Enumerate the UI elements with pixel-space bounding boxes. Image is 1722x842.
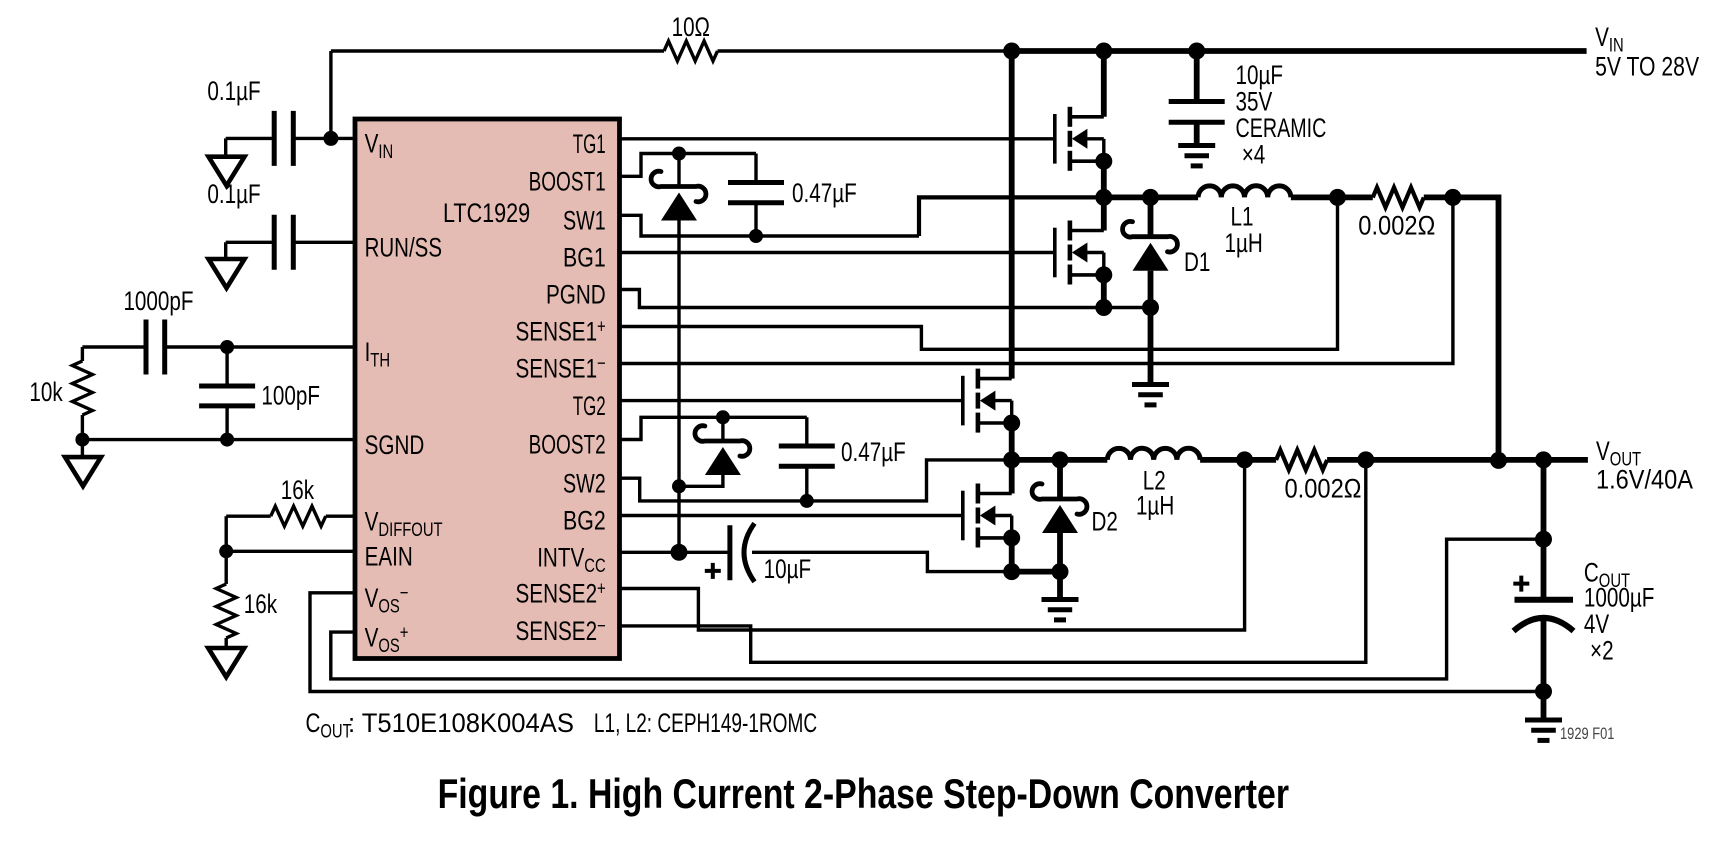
value label 0.47uF (boost 1) [792, 178, 857, 208]
wire EAIN pin [226, 550, 355, 553]
node SW2 / Q3 Q4 junction [1003, 451, 1020, 468]
wire Q1 source to SW1 node [1101, 161, 1107, 197]
resistor 10k (ITH) [72, 347, 92, 440]
svg-text:D1: D1 [1184, 247, 1210, 277]
svg-text:TG2: TG2 [573, 391, 606, 421]
figure number label 1929 F01 [1560, 725, 1614, 743]
transistor Q3 top MOSFET phase 2 [963, 369, 1012, 433]
wire PGND pin [620, 290, 1151, 308]
svg-text:−: − [400, 583, 409, 604]
designator label D2 [1092, 507, 1118, 537]
net label VIN 5V TO 28V [1595, 22, 1699, 82]
svg-text:IN: IN [378, 142, 393, 163]
svg-text:PGND: PGND [546, 280, 606, 310]
svg-text:1.6V/40A: 1.6V/40A [1596, 465, 1693, 495]
wire input rail thin segment with 10 ohm [331, 49, 664, 52]
U1 pin label BOOST2 [529, 430, 606, 460]
note COUT and inductor part numbers [306, 708, 818, 743]
wire TG2 gate drive [620, 399, 963, 402]
U1 pin label VDIFFOUT [365, 506, 443, 541]
node ITH / 100pF tap [220, 340, 234, 354]
node boost cap 1 bottom / SW1 [749, 229, 763, 243]
wire D3 anode to INTVCC rail riser [677, 221, 680, 553]
node boost cap 2 bottom / SW2 [800, 494, 814, 508]
node SENSE2- tap [1357, 451, 1374, 468]
node BOOST2 rail / boost diode D4 [716, 410, 730, 424]
capacitor 0.1uF (RUN/SS soft-start) [226, 215, 294, 270]
wire TG1 gate drive [620, 137, 1055, 140]
svg-text:0.002Ω: 0.002Ω [1285, 474, 1362, 504]
wire VOS+ remote output sense [331, 539, 1544, 679]
ground (SGND) [65, 457, 101, 486]
value label COUT 1000uF 4V x2 [1584, 558, 1655, 666]
wire VIN pin [293, 137, 355, 140]
U1 part number label LTC1929 [443, 198, 530, 228]
wire COUT to ground [1541, 692, 1547, 721]
U1 pin label SENSE1- [516, 354, 606, 384]
node SENSE2+ tap [1236, 451, 1253, 468]
svg-text:OS: OS [378, 597, 399, 618]
node EAIN junction [219, 544, 233, 558]
svg-text:V: V [365, 622, 379, 652]
U1 pin label SW1 [563, 206, 606, 236]
caption Figure 1. High Current 2-Phase Step-Down Converter [438, 770, 1289, 817]
node SW2 / D2 cathode [1052, 451, 1069, 468]
capacitor 0.47uF boost phase 1 [728, 154, 784, 237]
node Q1 source junction [1095, 153, 1112, 170]
capacitor 10uF INTVCC bypass (polarized) [705, 523, 755, 582]
capacitor 0.1uF (VIN bypass) [226, 111, 294, 166]
wire Q2 source to PGND node [1101, 275, 1107, 308]
svg-text:BOOST1: BOOST1 [529, 167, 606, 197]
svg-text:5V TO 28V: 5V TO 28V [1595, 52, 1699, 82]
ground (VIN bypass cap) [209, 157, 245, 186]
svg-text:D2: D2 [1092, 507, 1118, 537]
svg-text:BG2: BG2 [563, 506, 606, 536]
svg-text:C: C [306, 708, 321, 738]
wire SW1 switch node [1104, 194, 1198, 200]
svg-text:V: V [1595, 22, 1609, 52]
svg-text:1000µF: 1000µF [1584, 583, 1655, 613]
svg-text:SGND: SGND [365, 430, 425, 460]
svg-text:RUN/SS: RUN/SS [365, 233, 442, 263]
U1 pin label VOS- [365, 583, 409, 618]
wire SW1 pin to switch node [620, 197, 1104, 236]
svg-text:1000pF: 1000pF [123, 286, 193, 316]
wire L1 to sense resistor [1291, 194, 1373, 200]
svg-text:10µF: 10µF [1236, 60, 1284, 90]
wire SENSE1- line [620, 197, 1453, 363]
wire INTVCC pin segment [620, 551, 730, 554]
op-amp U1 LTC1929 controller IC body [355, 119, 620, 659]
svg-text:4V: 4V [1584, 609, 1610, 639]
node power ground / D2 anode [1052, 563, 1069, 580]
U1 pin label SENSE1+ [516, 317, 606, 347]
svg-text:EAIN: EAIN [365, 542, 413, 572]
svg-text:35V: 35V [1236, 87, 1273, 117]
value label 10 ohm [672, 12, 710, 42]
node Q2 source junction [1095, 266, 1112, 283]
ground (output) [1525, 720, 1562, 740]
value label 100pF [261, 381, 320, 411]
svg-text:SENSE2: SENSE2 [516, 579, 598, 609]
U1 pin label SW2 [563, 468, 606, 498]
resistor 10 ohm (VIN filter) [664, 41, 718, 61]
wire Q4 drain riser to SW2 [1009, 460, 1015, 494]
svg-text:16k: 16k [244, 589, 278, 619]
U1 pin label BG1 [563, 243, 606, 273]
svg-text:+: + [597, 579, 606, 600]
diode D4 boost schottky phase 2 [695, 417, 750, 475]
wire sense resistor to output riser [1424, 197, 1499, 460]
svg-text:SW1: SW1 [563, 206, 606, 236]
value label 10uF (INTVCC) [764, 554, 812, 584]
transistor Q2 bottom MOSFET phase 1 [1055, 221, 1104, 285]
wire SW2 switch node [1012, 457, 1108, 463]
wire BG2 gate drive [620, 514, 963, 517]
svg-text:TH: TH [370, 351, 390, 372]
value label 0.002 ohm (phase 2) [1285, 474, 1362, 504]
transistor Q1 top MOSFET phase 1 [1055, 107, 1104, 171]
value label L2 1uH [1136, 466, 1174, 521]
ground (16k divider) [208, 648, 244, 677]
svg-text:SENSE2: SENSE2 [516, 616, 598, 646]
svg-text:BOOST2: BOOST2 [529, 430, 606, 460]
resistor 0.002 ohm sense phase 1 [1373, 187, 1424, 207]
ground (phase 1 power) [1132, 385, 1169, 405]
node 10k bottom / SGND [75, 433, 89, 447]
capacitor 100pF [199, 347, 255, 440]
svg-text:0.002Ω: 0.002Ω [1358, 211, 1435, 241]
wire VOUT output line [1327, 457, 1588, 463]
node VIN rail / M3 drain riser [1003, 43, 1020, 60]
wire SW2 pin to switch node [620, 460, 1012, 501]
wire L2 to sense resistor [1200, 457, 1276, 463]
wire VIN pin to top rail riser [329, 51, 332, 138]
U1 pin label ITH [365, 337, 390, 372]
svg-text:OS: OS [378, 636, 399, 657]
svg-text:V: V [365, 583, 379, 613]
svg-text:: T510E108K004AS: : T510E108K004AS [348, 708, 574, 738]
svg-text:0.1µF: 0.1µF [207, 76, 260, 106]
wire VIN power rail [1012, 48, 1587, 54]
node VIN pin junction [323, 131, 338, 146]
svg-text:DIFFOUT: DIFFOUT [378, 520, 442, 541]
svg-text:SENSE1: SENSE1 [516, 354, 598, 384]
svg-text:10Ω: 10Ω [672, 12, 710, 42]
svg-text:16k: 16k [281, 475, 315, 505]
svg-text:−: − [597, 354, 606, 375]
wire BG1 gate drive [620, 251, 1055, 254]
resistor 0.002 ohm sense phase 2 [1276, 450, 1327, 470]
node phase 1 output merge [1490, 452, 1507, 469]
value label 0.002 ohm (phase 1) [1358, 211, 1435, 241]
node VOUT / COUT tap [1535, 451, 1552, 468]
U1 pin label RUN/SS [365, 233, 442, 263]
capacitor 0.47uF boost phase 2 [779, 417, 835, 501]
node COUT / VOS+ sense tap [1535, 531, 1552, 548]
svg-text:×4: ×4 [1242, 140, 1266, 170]
U1 pin label VOS+ [365, 622, 409, 657]
capacitor 1000pF (ITH compensation) [82, 320, 164, 375]
svg-text:SENSE1: SENSE1 [516, 317, 598, 347]
svg-text:×2: ×2 [1590, 636, 1614, 666]
capacitor 10uF 35V ceramic input cap [1169, 51, 1225, 146]
wire BOOST2 pin to boost rail [620, 417, 807, 439]
svg-text:+: + [597, 317, 606, 338]
node SW1 / D1 cathode [1142, 189, 1159, 206]
capacitor COUT 1000uF 4V (polarized) [1513, 576, 1573, 692]
value label 0.1uF (RUN/SS) [207, 179, 260, 209]
wire M3 drain riser from VIN rail [1009, 51, 1015, 379]
wire SENSE1+ line [620, 197, 1338, 349]
node SENSE1- tap [1444, 189, 1461, 206]
node VIN rail / M1 drain riser [1095, 43, 1112, 60]
wire 10 ohm to VIN node [718, 49, 1012, 52]
svg-text:1929 F01: 1929 F01 [1560, 725, 1614, 743]
ground (phase 2 power) [1042, 600, 1079, 620]
U1 pin label VIN [365, 129, 394, 164]
svg-text:BG1: BG1 [563, 243, 606, 273]
U1 pin label TG2 [573, 391, 606, 421]
node Q3 source junction [1003, 415, 1020, 432]
ground (RUN/SS cap) [209, 259, 245, 288]
wire Q2 drain riser to SW1 [1101, 197, 1107, 230]
diode D3 boost schottky phase 1 [651, 154, 706, 221]
net label VOUT 1.6V/40A [1596, 436, 1693, 495]
U1 pin label SGND [365, 430, 425, 460]
designator label D1 [1184, 247, 1210, 277]
wire D1 anode to ground [1148, 308, 1154, 385]
value label 10k [29, 377, 63, 407]
node VIN rail / input cap [1188, 43, 1205, 60]
value label 16k (lower) [244, 589, 278, 619]
node SENSE1+ tap [1329, 189, 1346, 206]
svg-text:0.1µF: 0.1µF [207, 179, 260, 209]
node BOOST1 rail / boost diode D3 [672, 147, 686, 161]
inductor L2 1uH [1107, 448, 1200, 460]
wire ITH pin segment [165, 345, 355, 348]
svg-text:V: V [1596, 436, 1610, 466]
svg-text:CERAMIC: CERAMIC [1236, 113, 1327, 143]
svg-text:V: V [365, 506, 379, 536]
inductor L1 1uH [1198, 186, 1291, 198]
node SW1 / Q1 Q2 junction [1095, 189, 1112, 206]
resistor 16k (VDIFFOUT feedback) [226, 506, 355, 551]
svg-text:L1, L2: CEPH149-1ROMC: L1, L2: CEPH149-1ROMC [594, 708, 817, 738]
svg-text:INTV: INTV [537, 543, 584, 573]
svg-text:10µF: 10µF [764, 554, 812, 584]
node D4 anode / INTVCC riser [672, 479, 686, 493]
node 100pF bottom / SGND [220, 433, 234, 447]
svg-text:1µH: 1µH [1136, 491, 1174, 521]
value label 0.47uF (boost 2) [841, 437, 906, 467]
wire Q3 source to SW2 node [1009, 423, 1015, 460]
wire VOS- remote ground sense [310, 593, 1544, 692]
wire BOOST1 pin to boost rail [620, 154, 757, 177]
wire power ground node to D2 anode [1012, 569, 1060, 575]
svg-text:LTC1929: LTC1929 [443, 198, 530, 228]
value label L1 1uH [1225, 201, 1263, 258]
wire D4 anode jog to INTVCC riser [679, 475, 723, 486]
svg-text:100pF: 100pF [261, 381, 320, 411]
wire INTVCC cap to power ground node [752, 552, 1012, 571]
svg-text:L1: L1 [1231, 201, 1254, 231]
U1 pin label BG2 [563, 506, 606, 536]
node PGND line / Q2 source [1095, 299, 1112, 316]
wire VOUT to COUT [1541, 460, 1547, 598]
svg-text:0.47µF: 0.47µF [841, 437, 906, 467]
value label 10uF 35V CERAMIC x4 [1236, 60, 1327, 170]
node PGND line / D1 anode [1142, 299, 1159, 316]
svg-text:TG1: TG1 [573, 129, 606, 159]
U1 pin label SENSE2- [516, 616, 606, 646]
svg-text:0.47µF: 0.47µF [792, 178, 857, 208]
wire RUN/SS pin [293, 241, 355, 244]
ground (input cap) [1178, 146, 1215, 166]
U1 pin label SENSE2+ [516, 579, 606, 609]
resistor 16k (EAIN to ground) [216, 551, 236, 648]
wire SGND to ground stub [81, 440, 84, 458]
U1 pin label INTVCC [537, 543, 606, 578]
wire M1 drain riser from VIN rail [1101, 51, 1107, 117]
svg-text:Figure 1. High Current 2-Phase: Figure 1. High Current 2-Phase Step-Down… [438, 770, 1289, 817]
wire SGND pin [82, 438, 355, 441]
node Q4 source junction [1003, 529, 1020, 546]
U1 pin label EAIN [365, 542, 413, 572]
node power ground / Q4 source [1003, 563, 1020, 580]
diode D1 schottky phase 1 [1123, 197, 1178, 307]
wire Q4 source to power ground node [1009, 538, 1015, 572]
value label 1000pF [123, 286, 193, 316]
svg-text:V: V [365, 129, 379, 159]
wire SENSE2+ line [620, 460, 1245, 630]
svg-text:1µH: 1µH [1225, 228, 1263, 258]
svg-text:+: + [400, 622, 409, 643]
diode D2 schottky phase 2 [1032, 460, 1087, 572]
node COUT ground / VOS- tap [1535, 683, 1552, 700]
svg-text:SW2: SW2 [563, 468, 606, 498]
svg-text:−: − [597, 616, 606, 637]
wire D2 anode to ground [1057, 572, 1063, 600]
value label 0.1uF (VIN) [207, 76, 260, 106]
svg-text:10k: 10k [29, 377, 63, 407]
svg-text:CC: CC [584, 556, 605, 577]
U1 pin label BOOST1 [529, 167, 606, 197]
node INTVCC / boost diode riser [671, 544, 688, 561]
value label 16k (feedback) [281, 475, 315, 505]
transistor Q4 bottom MOSFET phase 2 [963, 484, 1012, 548]
U1 pin label PGND [546, 280, 606, 310]
U1 pin label TG1 [573, 129, 606, 159]
wire SENSE2- line [620, 460, 1366, 662]
